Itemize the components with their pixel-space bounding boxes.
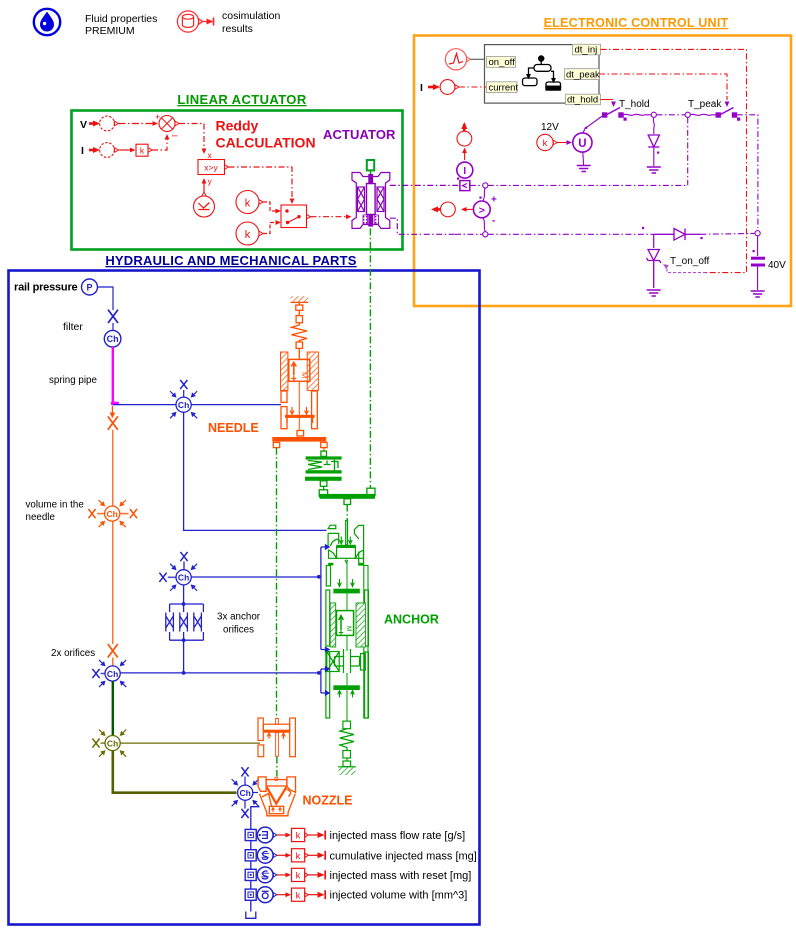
top poppet <box>328 525 336 528</box>
orifice X (filter inlet) <box>108 310 118 323</box>
wire I input arrow <box>89 149 95 152</box>
svg-text:40V: 40V <box>768 260 786 271</box>
svg-text:Ch: Ch <box>107 334 119 344</box>
blue bracket lower <box>317 671 321 675</box>
red transmitter left <box>434 208 440 211</box>
svg-text:rail pressure: rail pressure <box>14 282 78 294</box>
svg-text:P: P <box>86 283 92 293</box>
svg-text:k: k <box>140 146 145 156</box>
svg-text:V: V <box>80 119 87 131</box>
pipe end arrow <box>113 402 119 405</box>
svg-text:I: I <box>420 82 423 94</box>
wire D2 to cap node <box>700 232 755 235</box>
selector switch block <box>281 205 307 228</box>
needle piston walls <box>281 391 287 402</box>
svg-text:x: x <box>208 150 213 160</box>
source V <box>100 116 115 131</box>
wire bus1 right <box>488 184 688 186</box>
piston plate <box>285 415 315 418</box>
svg-text:NOZZLE: NOZZLE <box>303 794 353 808</box>
sensor row 2: cumulative injected mass <box>245 847 477 863</box>
blue bracket upper (to anchor ports) <box>317 545 329 695</box>
wire junction to needle chamber <box>113 404 281 406</box>
sensor row 4: injected volume <box>245 887 467 903</box>
svg-text:+: + <box>155 112 160 122</box>
red receiver circle <box>441 202 456 217</box>
wire bus1 (sensor to comparator node) <box>470 184 483 186</box>
needle lever <box>272 437 326 442</box>
chamber Ch (needle top) <box>168 380 199 420</box>
svg-text:dt_peak: dt_peak <box>566 69 600 80</box>
wire dt_inj (red dash-dot) <box>601 49 747 272</box>
svg-text:cumulative injected mass [mg]: cumulative injected mass [mg] <box>330 850 477 862</box>
summer junction <box>159 116 175 132</box>
wire sensor to receiver <box>464 149 466 161</box>
chamber Ch (nozzle) <box>230 767 261 818</box>
actuator U1 (solenoid) <box>352 173 390 229</box>
constant k2 <box>236 222 259 245</box>
sensor rows <box>245 827 477 903</box>
wire actuator to ECU bus 2 <box>390 218 455 234</box>
outer walls <box>326 566 330 587</box>
svg-text:NEEDLE: NEEDLE <box>208 421 259 435</box>
orifice X (2x orifices) <box>108 644 118 658</box>
statechart icon <box>523 56 561 90</box>
svg-text:>: > <box>479 205 485 217</box>
olive thick pipe to nozzle chamber <box>113 751 237 793</box>
wire orifices down to junction <box>183 640 185 673</box>
fluid properties icon <box>34 9 60 35</box>
anchor mass <box>337 611 354 636</box>
svg-text:+: + <box>491 195 497 206</box>
sensor block on bus <box>460 181 470 191</box>
wire T_peak to cap riser <box>737 115 758 228</box>
svg-text:Reddy: Reddy <box>216 118 259 134</box>
wire U to switch rail <box>583 116 603 134</box>
svg-text:filter: filter <box>63 321 83 333</box>
wire voltmeter to bus2 <box>483 218 485 232</box>
memory block <box>194 196 215 217</box>
pressure source P <box>82 279 98 295</box>
wire orange down <box>112 521 114 644</box>
spring pipe (magenta) <box>112 347 114 402</box>
wire dt_inj to T_on_off gate (purple dashed) <box>667 268 706 273</box>
lower piston <box>333 685 359 690</box>
svg-text:x>y: x>y <box>204 163 218 173</box>
svg-text:injected mass flow rate [g/s]: injected mass flow rate [g/s] <box>330 830 466 842</box>
wire bus2 (left span) <box>455 233 483 235</box>
svg-text:Fluid properties: Fluid properties <box>85 13 157 25</box>
wire current source to block <box>459 86 486 88</box>
wire chamber down to orifices <box>183 585 185 604</box>
wire T_hold to node <box>623 114 651 115</box>
chamber Ch (anchor orifices) <box>159 552 199 593</box>
chamber Ch (filter) <box>104 330 121 347</box>
wire U to ground <box>582 152 585 165</box>
svg-text:volume in the: volume in the <box>26 500 85 511</box>
wire P to filter <box>98 287 114 310</box>
wire summer to comparator x input <box>179 124 204 151</box>
olive line to piston <box>120 742 260 744</box>
wire I input arrow <box>428 86 434 89</box>
sensor chain end bracket <box>246 912 256 919</box>
svg-text:dt_hold: dt_hold <box>567 95 598 106</box>
wire k to summer minus input <box>152 136 167 150</box>
ground (T_on_off) <box>647 290 661 296</box>
wire nozzle to sensors <box>251 807 260 912</box>
needle spring <box>292 323 308 342</box>
svg-text:LINEAR ACTUATOR: LINEAR ACTUATOR <box>177 92 306 107</box>
anchor assembly <box>326 521 369 776</box>
wire node to node <box>656 114 685 116</box>
svg-text:ELECTRONIC CONTROL UNIT: ELECTRONIC CONTROL UNIT <box>544 16 729 30</box>
dark green pipe <box>112 681 114 736</box>
wire to chamber <box>112 658 114 666</box>
svg-text:12V: 12V <box>541 122 559 133</box>
svg-text:injected volume with [mm^3]: injected volume with [mm^3] <box>330 890 468 902</box>
wire comparator to selector <box>229 167 293 199</box>
svg-text:T_peak: T_peak <box>688 99 722 110</box>
svg-text:3x anchor: 3x anchor <box>217 612 261 623</box>
svg-text:orifices: orifices <box>223 625 254 636</box>
svg-text:-: - <box>492 216 495 227</box>
svg-text:k: k <box>296 890 301 901</box>
needle assembly <box>272 296 327 447</box>
svg-text:k: k <box>543 138 548 149</box>
svg-text:spring pipe: spring pipe <box>49 375 97 386</box>
wire orange down <box>112 430 114 506</box>
needle lever to spring stack link <box>323 448 325 452</box>
source I <box>100 143 115 158</box>
svg-text:k: k <box>245 198 251 210</box>
comparator block x>y <box>198 160 225 175</box>
thyristor T_on_off <box>653 234 655 248</box>
chamber Ch (blue, lower) <box>92 658 128 689</box>
wire node to voltmeter <box>483 188 485 201</box>
svg-text:injected mass with reset [mg]: injected mass with reset [mg] <box>330 870 472 882</box>
hydraulic box frame <box>9 271 480 925</box>
nozzle assembly <box>258 777 295 816</box>
switch T_hold <box>603 108 627 121</box>
svg-text:k: k <box>296 851 301 862</box>
sensor row 3: injected mass with reset <box>245 867 471 883</box>
svg-text:I: I <box>81 145 84 157</box>
wire comparator y input <box>203 180 205 192</box>
node cap top <box>755 231 760 236</box>
wire k1 to selector <box>263 202 277 211</box>
wire V to summer <box>118 123 154 125</box>
spring-damper stack (green) <box>305 451 375 504</box>
chamber Ch (olive) <box>92 728 128 759</box>
svg-text:k: k <box>296 871 301 882</box>
svg-text:T_hold: T_hold <box>619 99 650 110</box>
svg-text:M: M <box>345 626 352 631</box>
orange branch: orifice X <box>108 416 118 429</box>
wall anchor top <box>291 296 309 302</box>
wire lever to anchor (green dash-dot) <box>346 505 348 522</box>
svg-text:T_on_off: T_on_off <box>670 256 710 267</box>
gain block k <box>136 144 148 156</box>
piston arrows <box>290 407 294 414</box>
wire dt_peak (red dash-dot) <box>599 74 727 100</box>
signal receiver circle <box>457 131 472 146</box>
source waveform <box>445 49 466 70</box>
wire node to T_peak <box>690 114 716 115</box>
wire diode to ground <box>653 147 655 166</box>
actuator signal port (green square) <box>367 160 374 170</box>
wire needle to nozzle (green dash-dot) <box>276 448 278 719</box>
linear actuator box frame <box>72 111 403 250</box>
constant k1 <box>236 191 259 214</box>
wire V input arrow <box>89 122 95 125</box>
svg-text:−: − <box>172 131 178 143</box>
port label dt_inj <box>573 44 601 55</box>
svg-text:HYDRAULIC AND MECHANICAL PARTS: HYDRAULIC AND MECHANICAL PARTS <box>105 253 356 268</box>
wire chamber to anchor <box>191 576 319 578</box>
wire <box>112 323 114 331</box>
diode D1 <box>648 135 659 147</box>
voltmeter comparator <box>473 201 490 218</box>
svg-text:current: current <box>489 82 519 93</box>
wire actuator mech output (green dash-dot down) <box>369 228 371 488</box>
contact element <box>327 652 339 672</box>
wire needle chamber down <box>184 412 327 530</box>
svg-text:k: k <box>296 831 301 842</box>
capacitor 40V <box>757 236 759 256</box>
anchor spring <box>343 721 351 729</box>
svg-text:U: U <box>578 138 586 150</box>
ground (capacitor) <box>751 291 765 297</box>
wire bus1 riser <box>687 117 689 185</box>
hatched guides <box>330 603 336 647</box>
svg-text:M: M <box>300 372 309 378</box>
node bus1 <box>483 183 488 188</box>
ECU box frame <box>414 36 791 307</box>
port label current <box>487 82 518 93</box>
piston pair (orange) <box>258 718 295 757</box>
svg-text:ANCHOR: ANCHOR <box>384 613 439 627</box>
svg-text:CALCULATION: CALCULATION <box>216 135 316 151</box>
wire k to U <box>557 142 567 144</box>
svg-text:2x orifices: 2x orifices <box>51 648 95 659</box>
svg-text:on_off: on_off <box>489 57 516 68</box>
switch T_peak <box>716 108 740 121</box>
svg-text:ACTUATOR: ACTUATOR <box>323 127 396 142</box>
constant k (12V) <box>537 134 553 150</box>
svg-text:k: k <box>245 229 251 241</box>
wire bus2 to T_on_off junction <box>488 233 654 235</box>
ground (U) <box>577 166 591 172</box>
voltage source U <box>573 133 592 152</box>
wire chamber to anchor line <box>120 672 319 674</box>
port label dt_peak <box>565 69 600 80</box>
chamber Ch (needle volume, orange) <box>88 498 137 529</box>
sensor row 1: mass flow rate <box>245 827 465 843</box>
wire I to gain k <box>118 149 130 151</box>
node bus2 <box>483 232 488 237</box>
wire source to on_off <box>471 58 486 60</box>
wire k2 to selector <box>263 223 277 234</box>
svg-text:I: I <box>463 166 466 177</box>
needle mass <box>289 359 310 381</box>
wire voltmeter to red receiver <box>462 208 473 210</box>
anchor lever <box>319 490 327 497</box>
port label on_off <box>487 57 516 68</box>
red transmitter up <box>463 124 466 131</box>
svg-text:dt_inj: dt_inj <box>575 45 598 56</box>
3x anchor orifices block <box>166 602 204 642</box>
svg-text:cosimulation: cosimulation <box>222 10 281 22</box>
wire dt_hold <box>601 99 613 102</box>
source I current <box>440 80 455 95</box>
current sensor I <box>457 162 473 178</box>
anchor piston <box>338 579 342 587</box>
diode D2 (series) <box>654 229 701 241</box>
ground (diode) <box>647 167 661 173</box>
statechart block <box>485 45 600 104</box>
svg-text:PREMIUM: PREMIUM <box>85 25 135 37</box>
svg-text:needle: needle <box>26 512 56 523</box>
node (bus1 riser) <box>685 112 690 117</box>
needle guide walls (hatched) <box>281 352 288 390</box>
svg-text:results: results <box>222 23 253 35</box>
cosimulation results block <box>177 11 213 32</box>
svg-text:y: y <box>208 176 213 186</box>
wire selector to actuator <box>311 216 349 218</box>
node (diode branch) <box>651 112 656 117</box>
port label dt_hold <box>566 94 601 105</box>
diode branch wire <box>653 117 654 134</box>
wire actuator to ECU bus 1 <box>390 184 462 186</box>
